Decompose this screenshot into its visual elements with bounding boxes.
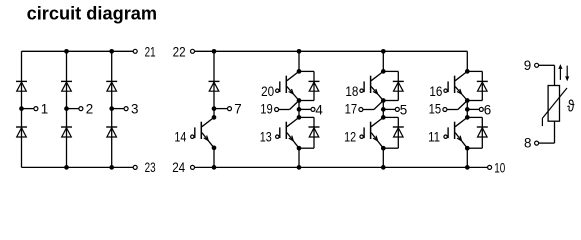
terminal pin 10 (DC- output) — [488, 161, 506, 176]
terminal pin 13 (bottom gate leg 1) — [260, 129, 279, 144]
svg-text:21: 21 — [145, 45, 156, 60]
wire: leg 3 collector feed — [466, 51, 468, 71]
wire: top diode branch leg 2 — [383, 71, 398, 100]
node phase output 6 junction — [465, 107, 470, 112]
terminal pin 6 (phase output) — [479, 102, 491, 117]
svg-text:18: 18 — [345, 84, 358, 99]
junction: bottom IGBT emitter leg 2 — [381, 146, 386, 151]
junction: bottom rail leg2 — [64, 165, 69, 170]
wire: AC input 3 stub — [112, 108, 124, 110]
svg-text:7: 7 — [234, 101, 241, 116]
svg-text:17: 17 — [345, 102, 358, 117]
terminal pin 24 (inverter DC-) — [172, 160, 194, 175]
wire: brake emitter to DC- rail — [213, 148, 215, 168]
terminal pin 12 (bottom gate leg 2) — [344, 129, 363, 144]
svg-text:12: 12 — [344, 129, 356, 144]
wire: leg 1 phase link — [298, 101, 300, 118]
wire: phase output 6 stub — [467, 108, 479, 110]
diode D4 (rectifier lower, phase 2) — [61, 127, 72, 137]
arrow up (resistance variation) — [558, 64, 562, 80]
junction: leg 3 on DC- rail — [465, 165, 470, 170]
svg-text:16: 16 — [429, 84, 442, 99]
wire: leg 2 phase link — [382, 101, 384, 118]
junction: bottom rail leg3 — [109, 165, 114, 170]
junction: top rail leg2 — [64, 49, 69, 54]
thermistor diagonal stroke — [542, 88, 567, 126]
diode DF2b (bottom freewheel diode leg 2) — [393, 127, 404, 137]
terminal pin 18 (top gate leg 2) — [345, 84, 363, 99]
diode D6 (rectifier lower, phase 3) — [106, 127, 117, 137]
wire: leg 2 collector feed — [382, 51, 384, 71]
terminal pin 5 (phase output) — [395, 102, 407, 117]
svg-text:4: 4 — [315, 102, 323, 117]
terminal pin 20 (top gate leg 1) — [261, 84, 279, 99]
junction: top IGBT collector leg 3 — [465, 69, 470, 74]
diode DF3a (top freewheel diode leg 3) — [477, 81, 488, 91]
wire: pin 7 stub — [214, 108, 228, 110]
wire: leg 1 collector feed — [298, 51, 300, 71]
junction: leg 2 on DC+ rail — [381, 49, 386, 54]
node AC phase 2 junction — [64, 106, 69, 111]
wire: rectifier leg 1 vertical — [21, 51, 23, 167]
diode DF2a (top freewheel diode leg 2) — [393, 81, 404, 91]
terminal pin 11 (bottom gate leg 3) — [428, 129, 447, 144]
wire: inverter DC- rail — [195, 166, 488, 168]
node phase output 5 junction — [381, 107, 386, 112]
wire: bottom diode branch leg 3 — [467, 117, 482, 148]
svg-text:20: 20 — [261, 84, 274, 99]
svg-text:circuit diagram: circuit diagram — [27, 3, 158, 24]
wire: rectifier DC+ top rail — [22, 50, 134, 52]
transistor T7 (brake chopper IGBT) — [195, 117, 214, 147]
svg-text:19: 19 — [260, 102, 273, 117]
wire: inverter DC+ rail — [195, 50, 468, 52]
wire: phase output 4 stub — [299, 108, 311, 110]
svg-text:5: 5 — [400, 102, 407, 117]
wire: top diode branch leg 3 — [467, 71, 482, 100]
wire: auxiliary emitter 15 — [447, 101, 467, 110]
diode D1 (rectifier upper, phase 1) — [16, 81, 27, 91]
terminal pin 1 — [34, 101, 48, 116]
transistor B3 (bottom IGBT leg 3) — [448, 117, 467, 148]
svg-text:15: 15 — [429, 102, 442, 117]
transistor T3 (top IGBT leg 3) — [448, 71, 467, 100]
wire: leg 1 emitter to DC- rail — [298, 148, 300, 167]
wire: thermistor to pin 8 — [539, 121, 555, 143]
wire: pin 9 to thermistor — [539, 65, 555, 85]
wire: leg 3 emitter to DC- rail — [466, 148, 468, 167]
terminal pin 9 (thermistor) — [524, 58, 539, 73]
terminal pin 16 (top gate leg 3) — [429, 84, 447, 99]
terminal pin 7 (chopper collector) — [228, 101, 242, 116]
transistor T1 (top IGBT leg 1) — [280, 71, 299, 100]
svg-text:13: 13 — [260, 129, 272, 144]
junction: top IGBT emitter leg 2 — [381, 98, 386, 103]
wire: auxiliary emitter 19 — [279, 101, 299, 110]
wire: rectifier leg 3 vertical — [111, 51, 113, 167]
junction: top IGBT collector leg 2 — [381, 69, 386, 74]
node phase output 4 junction — [297, 107, 302, 112]
junction: leg 1 on DC+ rail — [297, 49, 302, 54]
terminal pin 2 — [79, 101, 93, 116]
arrow down (temperature variation) — [565, 66, 569, 82]
terminal pin 14 (brake gate) — [174, 129, 194, 144]
terminal pin 3 — [124, 101, 138, 116]
junction: brake IGBT collector — [212, 115, 217, 120]
junction: bottom IGBT emitter leg 1 — [297, 146, 302, 151]
wire: bottom diode branch leg 1 — [299, 117, 314, 148]
junction: top IGBT emitter leg 3 — [465, 98, 470, 103]
label: theta (temperature) — [567, 98, 574, 116]
junction: bottom IGBT collector leg 1 — [297, 115, 302, 120]
terminal pin 8 (thermistor) — [524, 136, 539, 151]
diode D7 (brake chopper) — [209, 81, 220, 91]
wire: rectifier DC- bottom rail — [22, 166, 134, 168]
svg-text:11: 11 — [428, 129, 440, 144]
wire: bottom diode branch leg 2 — [383, 117, 398, 148]
svg-text:10: 10 — [494, 161, 505, 176]
junction: brake branch on DC- rail — [212, 165, 217, 170]
svg-text:14: 14 — [174, 129, 186, 144]
terminal pin 17 (aux emitter leg 2) — [345, 102, 363, 117]
junction: bottom IGBT collector leg 2 — [381, 115, 386, 120]
wire: brake branch upper vertical — [213, 51, 215, 117]
diode DF1a (top freewheel diode leg 1) — [309, 81, 320, 91]
diode DF3b (bottom freewheel diode leg 3) — [477, 127, 488, 137]
junction: leg 2 on DC- rail — [381, 165, 386, 170]
svg-text:24: 24 — [172, 160, 185, 175]
junction: brake IGBT emitter — [212, 145, 217, 150]
junction: bottom IGBT emitter leg 3 — [465, 146, 470, 151]
junction: bottom IGBT collector leg 3 — [465, 115, 470, 120]
resistor R1 (NTC thermistor body) — [548, 86, 559, 122]
transistor B1 (bottom IGBT leg 1) — [280, 117, 299, 148]
diode DF1b (bottom freewheel diode leg 1) — [309, 127, 320, 137]
transistor B2 (bottom IGBT leg 2) — [364, 117, 383, 148]
terminal pin 22 (inverter DC+) — [173, 45, 195, 60]
transistor T2 (top IGBT leg 2) — [364, 71, 383, 100]
junction: brake branch on DC+ rail — [212, 49, 217, 54]
terminal pin 23 (rectifier DC-) — [133, 160, 155, 175]
node AC phase 3 junction — [109, 106, 114, 111]
junction: top rail leg3 — [109, 49, 114, 54]
diode D3 (rectifier upper, phase 2) — [61, 81, 72, 91]
junction: top IGBT emitter leg 1 — [297, 98, 302, 103]
wire: phase output 5 stub — [383, 108, 395, 110]
wire: rectifier leg 2 vertical — [66, 51, 68, 167]
svg-text:23: 23 — [145, 160, 156, 175]
wire: leg 2 emitter to DC- rail — [382, 148, 384, 167]
wire: AC input 2 stub — [67, 108, 79, 110]
svg-text:3: 3 — [131, 101, 138, 116]
svg-text:1: 1 — [41, 101, 48, 116]
diode D5 (rectifier upper, phase 3) — [106, 81, 117, 91]
junction: top IGBT collector leg 1 — [297, 69, 302, 74]
svg-text:22: 22 — [173, 45, 186, 60]
diode D2 (rectifier lower, phase 1) — [16, 127, 27, 137]
svg-text:ϑ: ϑ — [567, 98, 574, 116]
wire: top diode branch leg 1 — [299, 71, 314, 100]
svg-text:8: 8 — [524, 136, 531, 151]
junction: leg 1 on DC- rail — [297, 165, 302, 170]
svg-text:6: 6 — [484, 102, 491, 117]
terminal pin 4 (phase output) — [311, 102, 323, 117]
wire: leg 3 phase link — [466, 101, 468, 118]
terminal pin 21 (rectifier DC+) — [133, 45, 155, 60]
terminal pin 19 (aux emitter leg 1) — [260, 102, 278, 117]
svg-text:9: 9 — [524, 58, 531, 73]
terminal pin 15 (aux emitter leg 3) — [429, 102, 447, 117]
svg-text:2: 2 — [86, 101, 93, 116]
node 7 junction — [212, 106, 217, 111]
wire: AC input 1 stub — [22, 108, 34, 110]
wire: auxiliary emitter 17 — [363, 101, 383, 110]
node AC phase 1 junction — [19, 106, 24, 111]
